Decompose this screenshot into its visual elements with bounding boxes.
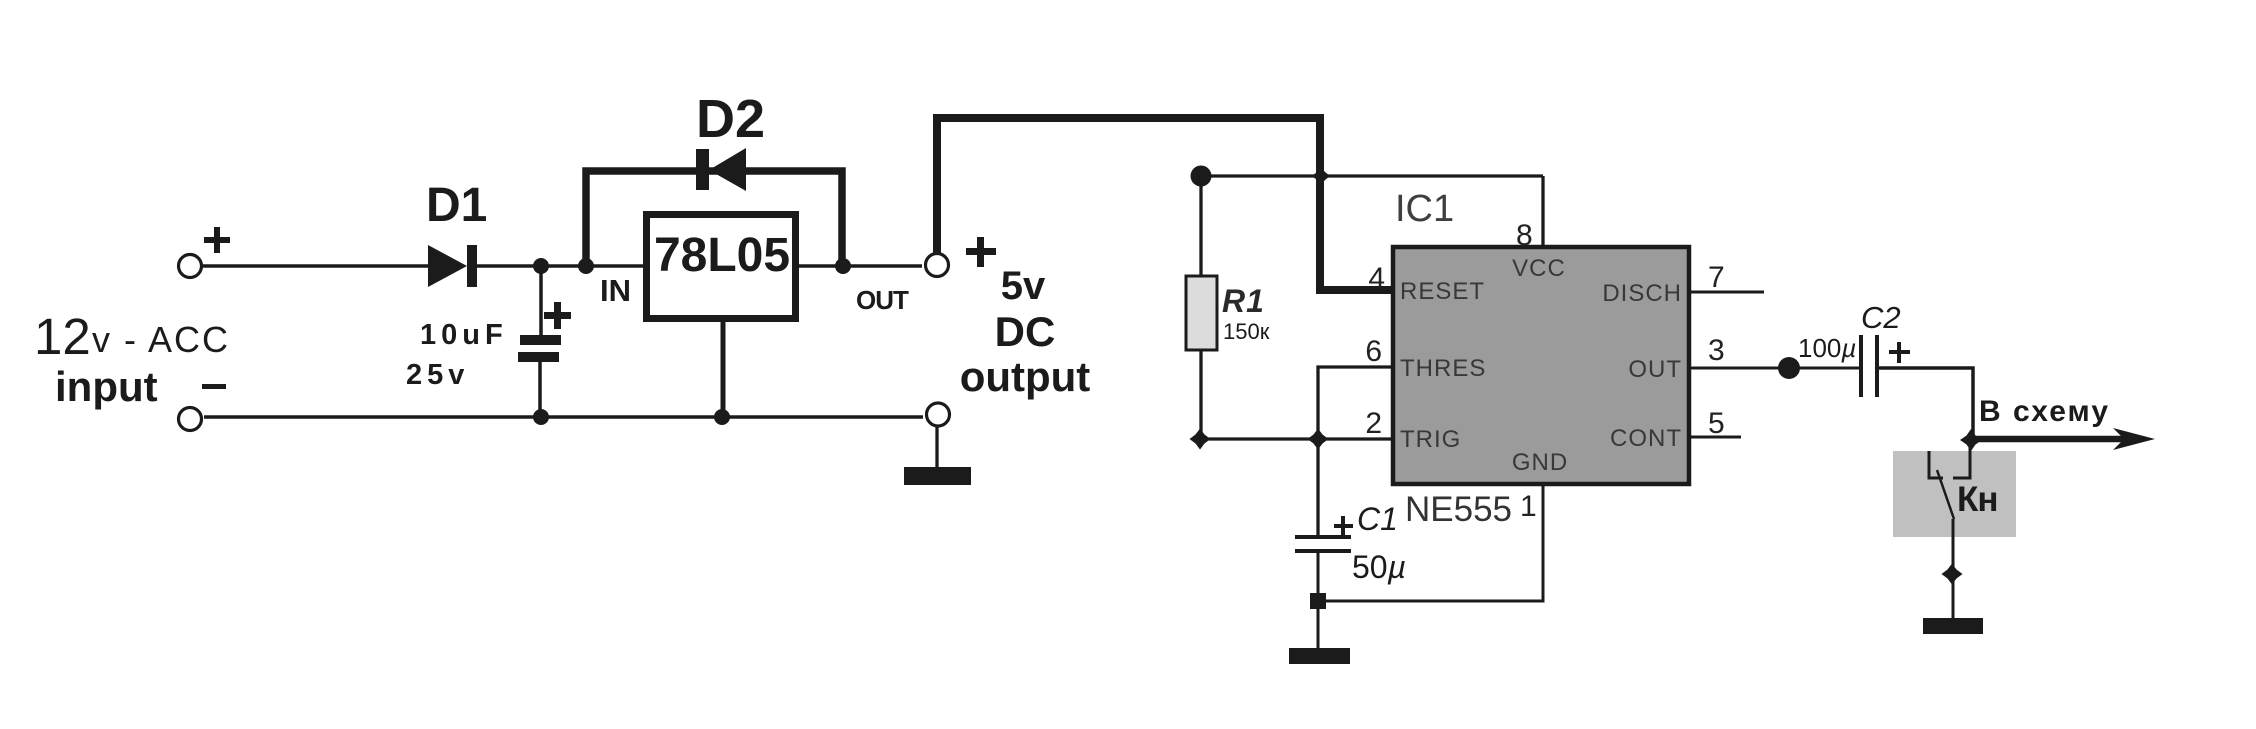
plus sign input	[204, 227, 230, 253]
node dot out pin3	[1778, 357, 1800, 379]
ground output	[904, 426, 971, 485]
node junction D2 tap	[578, 258, 594, 274]
wire thres link	[1318, 367, 1392, 439]
wire disch pin7	[1689, 291, 1764, 294]
wire vcc rail	[1201, 174, 1543, 177]
wire out to C2	[1789, 367, 1859, 370]
wire D2 bracket	[586, 171, 842, 267]
plus sign capacitor 10uF	[544, 302, 571, 329]
wire 78L05 gnd pin	[721, 322, 726, 417]
svg-text:GND: GND	[1512, 449, 1568, 476]
svg-text:TRIG: TRIG	[1400, 426, 1461, 453]
capacitor 10uF plates	[518, 335, 561, 362]
svg-text:4: 4	[1368, 262, 1385, 295]
wire R1 bottom lead	[1199, 350, 1202, 439]
svg-text:RESET: RESET	[1400, 278, 1485, 305]
node star output	[1960, 429, 1982, 451]
terminal output plus	[926, 254, 949, 277]
svg-text:12: 12	[34, 308, 91, 365]
svg-text:v - ACC: v - ACC	[92, 319, 230, 360]
terminal input minus	[179, 408, 202, 431]
switch lever	[1937, 470, 1954, 519]
switch contact left	[1929, 451, 1943, 478]
diode D1	[426, 179, 487, 287]
wire cont pin5	[1689, 436, 1741, 439]
svg-text:OUT: OUT	[1628, 356, 1682, 383]
svg-text:В схему: В схему	[1979, 395, 2110, 428]
wire vcc drop pin8	[1541, 176, 1544, 247]
node star trig tap	[1308, 429, 1329, 450]
plus sign C1	[1334, 516, 1353, 535]
node dot R1 top	[1191, 166, 1212, 187]
wire 78L05 OUT to terminal	[796, 264, 922, 268]
node star C1 gnd	[1310, 593, 1326, 609]
svg-text:150к: 150к	[1223, 319, 1270, 344]
node junction regulator gnd	[714, 409, 730, 425]
switch contact right	[1953, 441, 1970, 478]
svg-text:6: 6	[1365, 335, 1382, 368]
capacitor C2 plates	[1861, 335, 1877, 397]
wire R1 top lead	[1199, 176, 1202, 276]
wire C1 upper lead	[1316, 440, 1319, 537]
svg-text:CONT: CONT	[1610, 425, 1682, 452]
svg-text:D2: D2	[696, 89, 765, 149]
svg-text:25v: 25v	[406, 359, 469, 391]
svg-text:5v: 5v	[1001, 264, 1046, 308]
svg-text:100µ: 100µ	[1798, 333, 1856, 363]
IC U1 NE555 box	[1393, 247, 1689, 484]
wire gnd pin1	[1318, 484, 1543, 601]
svg-text:VCC: VCC	[1512, 255, 1566, 282]
wire trig rail	[1200, 437, 1392, 440]
plus sign C2	[1889, 342, 1910, 363]
svg-text:Кн: Кн	[1957, 480, 1998, 519]
node star switch ground	[1942, 564, 1963, 585]
ground switch	[1923, 618, 1983, 634]
svg-text:DC: DC	[995, 308, 1056, 355]
svg-text:8: 8	[1516, 219, 1533, 252]
wire bottom rail	[204, 415, 923, 419]
svg-text:78L05: 78L05	[654, 229, 790, 282]
svg-text:3: 3	[1708, 334, 1725, 367]
wire C1 lower lead	[1317, 553, 1320, 601]
svg-text:10uF: 10uF	[420, 319, 508, 351]
svg-text:D1: D1	[426, 179, 487, 232]
svg-text:OUT: OUT	[856, 285, 909, 315]
wire C2 to node	[1878, 368, 1973, 439]
svg-text:7: 7	[1708, 261, 1725, 294]
wire cap upper lead	[539, 266, 543, 336]
svg-text:output: output	[960, 353, 1091, 400]
wire thick bus output to reset	[937, 118, 1392, 290]
wire switch to ground	[1952, 519, 1955, 619]
terminal input plus	[179, 255, 202, 278]
wire out pin3	[1689, 367, 1789, 370]
label 12 V ACC	[34, 308, 230, 365]
svg-text:50µ: 50µ	[1352, 549, 1406, 585]
node junction cap tap	[533, 258, 549, 274]
terminal output minus	[927, 403, 950, 426]
plus sign output	[966, 237, 996, 267]
wire D1 to 78L05 IN	[477, 264, 648, 268]
svg-text:input: input	[55, 363, 158, 410]
svg-text:IN: IN	[600, 273, 631, 308]
capacitor C1 plates	[1295, 537, 1351, 551]
wire cap lower lead	[538, 361, 542, 418]
minus sign input	[202, 384, 226, 389]
wire input to D1	[203, 264, 430, 268]
svg-text:NE555: NE555	[1405, 490, 1512, 529]
svg-text:R1: R1	[1222, 283, 1265, 319]
resistor R1	[1186, 276, 1270, 350]
button Kn box	[1893, 451, 2016, 537]
diode D2	[696, 89, 765, 191]
label 5v DC output	[960, 264, 1091, 400]
regulator U 78L05 box	[647, 215, 796, 319]
ground C1	[1289, 601, 1350, 664]
svg-text:IC1: IC1	[1395, 188, 1454, 230]
svg-text:DISCH: DISCH	[1602, 280, 1682, 307]
node star R1 bottom	[1190, 429, 1211, 450]
svg-text:C1: C1	[1357, 501, 1398, 537]
node star bus crossing	[1312, 167, 1330, 185]
node junction cap bottom	[533, 409, 549, 425]
svg-text:1: 1	[1520, 490, 1537, 523]
svg-text:2: 2	[1365, 407, 1382, 440]
svg-text:C2: C2	[1861, 300, 1901, 335]
svg-text:THRES: THRES	[1400, 355, 1486, 382]
IC pin labels	[1400, 255, 1682, 476]
arrow to circuit	[1971, 428, 2155, 450]
node junction OUT	[835, 258, 851, 274]
svg-text:5: 5	[1708, 407, 1725, 440]
